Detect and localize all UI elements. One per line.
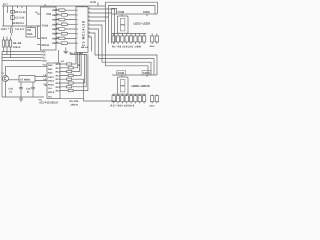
svg-text:CZ 3-10: CZ 3-10 [15,17,25,20]
svg-text:1N4001×4: 1N4001×4 [12,22,24,25]
svg-text:RC4: RC4 [56,78,61,81]
svg-text:1: 1 [77,9,79,12]
svg-text:4: 4 [77,23,79,26]
svg-text:3: 3 [77,18,79,21]
svg-text:Vss: Vss [48,87,53,90]
svg-text:LA: LA [61,60,64,63]
svg-text:6: 6 [77,33,79,36]
svg-text:17: 17 [56,31,58,34]
svg-text:RC0: RC0 [56,63,61,66]
svg-text:R9~R16 2kΩ: R9~R16 2kΩ [70,52,84,55]
svg-text:C11 470: C11 470 [15,28,25,31]
svg-text:R6~R8: R6~R8 [13,42,22,45]
svg-text:COM: COM [118,10,125,14]
svg-text:PR 10-15: PR 10-15 [15,11,26,14]
svg-text:RC2: RC2 [56,71,61,74]
svg-text:INT0: INT0 [42,37,48,40]
svg-text:220V: 220V [1,28,7,31]
svg-text:B1 T: B1 T [3,3,8,6]
svg-text:16: 16 [56,27,58,30]
svg-text:18: 18 [56,36,58,39]
svg-text:21: 21 [9,90,12,93]
svg-text:OSC2: OSC2 [48,80,55,83]
svg-text:LED1~LED8: LED1~LED8 [134,21,151,25]
svg-text:R1~R8 220Ω×8 1/8W: R1~R8 220Ω×8 1/8W [112,46,142,49]
svg-text:5: 5 [77,28,79,31]
svg-text:R17~R24 220Ω×8: R17~R24 220Ω×8 [111,105,135,108]
svg-text:13: 13 [56,13,58,16]
svg-text:4×1k: 4×1k [90,1,97,4]
svg-text:XT 4MHz: XT 4MHz [20,79,31,82]
svg-text:19: 19 [56,41,58,44]
svg-text:D1: D1 [78,64,82,67]
svg-text:Vss: Vss [48,96,53,99]
svg-text:Vcc: Vcc [43,64,48,67]
svg-text:P17: P17 [42,57,47,60]
svg-text:P16: P16 [42,54,47,57]
svg-text:RC1: RC1 [56,67,61,70]
svg-text:GND: GND [42,60,47,63]
svg-text:RTCC: RTCC [48,84,54,87]
svg-text:RC3: RC3 [56,74,61,77]
svg-text:12: 12 [56,8,58,11]
svg-text:RA0: RA0 [48,64,53,67]
svg-text:VT: VT [2,72,5,75]
svg-text:15: 15 [56,22,58,25]
svg-text:RC6: RC6 [56,86,61,89]
svg-text:10k×4: 10k×4 [13,46,21,49]
svg-text:COM: COM [143,71,150,75]
svg-text:MCLR: MCLR [48,91,55,94]
svg-text:8: 8 [77,42,79,45]
svg-text:MCLR: MCLR [42,44,50,47]
svg-text:TXD0: TXD0 [42,24,49,27]
svg-text:2: 2 [77,14,79,17]
svg-text:IC2 P1C16C57: IC2 P1C16C57 [40,101,59,105]
svg-text:RC7: RC7 [56,90,61,93]
svg-text:P15: P15 [42,51,47,54]
svg-text:2kΩ×8: 2kΩ×8 [71,104,79,107]
svg-text:CW: CW [27,29,32,32]
svg-text:COM: COM [118,71,125,75]
svg-text:7: 7 [77,37,79,40]
svg-text:RC5: RC5 [56,82,61,85]
svg-text:LED9~LED16: LED9~LED16 [132,84,150,88]
svg-text:2k×2: 2k×2 [150,45,156,48]
svg-text:P50: P50 [47,13,52,16]
svg-text:COM: COM [143,10,150,14]
svg-text:RA1: RA1 [48,68,53,71]
svg-text:IC3 MC1413B: IC3 MC1413B [82,20,86,48]
svg-text:7805: 7805 [27,33,33,36]
svg-text:RA2: RA2 [48,72,53,75]
svg-text:OSC1: OSC1 [48,76,55,79]
svg-text:+: + [8,27,10,30]
svg-text:21: 21 [27,90,30,93]
svg-text:2k×2: 2k×2 [150,105,156,108]
